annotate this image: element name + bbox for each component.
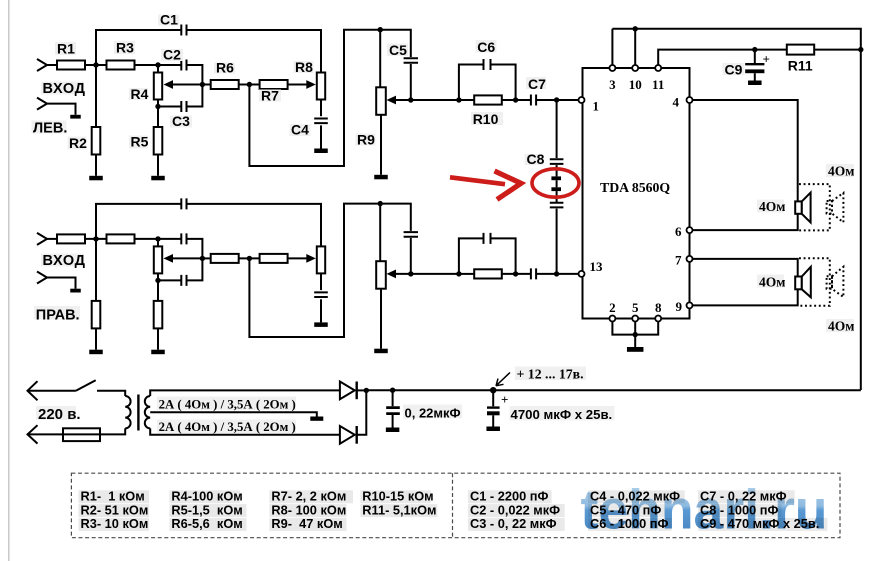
- label R1: [55, 42, 76, 55]
- switch SA1 blade: [76, 380, 96, 391]
- C6 bypass loop: [459, 238, 483, 274]
- label C6: [476, 40, 497, 53]
- svg-text:R10: R10: [473, 111, 499, 127]
- svg-text:C7: C7: [528, 76, 546, 92]
- node R9 top: [378, 201, 383, 206]
- red arrow shaft pointing at C8: [450, 177, 505, 184]
- resistor R6: [211, 80, 239, 89]
- wire C2 to right loop corner: [187, 65, 203, 85]
- input sleeve arrow: [37, 98, 47, 110]
- node C8 branch: [554, 97, 559, 102]
- pin 1 circle: [579, 97, 585, 103]
- svg-text:R5: R5: [131, 134, 149, 150]
- mains arrow top: [28, 381, 38, 400]
- svg-text:R9- 47 кОм: R9- 47 кОм: [271, 516, 342, 531]
- pin 3 circle: [609, 65, 615, 71]
- pin 8 circle: [655, 316, 661, 322]
- potentiometer R9: [376, 261, 386, 289]
- resistor R1: [57, 61, 85, 70]
- svg-text:4Ом: 4Ом: [828, 164, 854, 179]
- wire C7 to IC pin: [536, 99, 578, 101]
- wire diode cathodes join: [357, 389, 367, 391]
- label C3: [170, 116, 192, 128]
- capacitor C5: [404, 232, 418, 237]
- table dashed border: [71, 473, 840, 538]
- label 0.22 uF: [403, 405, 462, 419]
- wire +12V supply rail: [366, 389, 861, 391]
- wire C8 branch top: [556, 100, 558, 158]
- svg-text:R11: R11: [788, 58, 813, 74]
- transformer T1 secondary winding: [145, 396, 150, 428]
- label R4: [129, 88, 148, 100]
- wire mains bottom to fuse: [28, 433, 64, 435]
- label winding current top: [157, 397, 296, 411]
- svg-text:2А ( 4Ом ) / 3,5А ( 2Ом ): 2А ( 4Ом ) / 3,5А ( 2Ом ): [159, 420, 296, 434]
- capacitor C1: [181, 25, 186, 36]
- small arrow to +12V node: [496, 373, 510, 386]
- ground C4: [314, 149, 328, 154]
- pin 13 circle: [579, 271, 585, 277]
- label winding current bottom: [157, 420, 296, 434]
- capacitor C4: [314, 119, 328, 124]
- label C9: [723, 63, 745, 75]
- label R5: [129, 136, 148, 149]
- svg-text:R3: R3: [116, 40, 134, 56]
- ground center tap: [310, 417, 323, 421]
- node A input junction: [93, 62, 98, 67]
- wire sleeve to chassis stub: [47, 104, 76, 115]
- wire C8 between upper and middle: [556, 165, 558, 176]
- table value С3: [468, 518, 565, 531]
- table value С8: [698, 504, 782, 517]
- ground C9: [748, 81, 762, 86]
- label R7: [259, 90, 281, 102]
- node C6 loop left: [456, 271, 461, 276]
- resistor R7: [260, 80, 288, 89]
- wire R9 to ground: [380, 289, 382, 349]
- wire wiper to R6: [202, 257, 210, 259]
- svg-text:C4: C4: [291, 122, 309, 138]
- svg-text:6: 6: [675, 224, 682, 239]
- capacitor C2: [181, 233, 186, 244]
- svg-text:2А ( 4Ом ) / 3,5А ( 2Ом ): 2А ( 4Ом ) / 3,5А ( 2Ом ): [159, 397, 296, 411]
- pin 9 circle: [687, 302, 693, 308]
- mains arrow bottom: [28, 425, 38, 443]
- label C8: [525, 154, 544, 165]
- svg-text:C9: C9: [725, 61, 743, 77]
- label LEV.: [32, 121, 67, 134]
- wire R11 to supply rail: [814, 49, 861, 51]
- node C6 loop right: [513, 271, 518, 276]
- node feedback junction: [247, 256, 252, 261]
- wire C9 to ground: [754, 73, 756, 80]
- label PRAV.: [34, 306, 80, 320]
- diode VD2: [340, 426, 355, 444]
- transformer T1 primary winding: [125, 396, 130, 428]
- input jack arrow right channel: [37, 233, 47, 245]
- ground R5: [151, 176, 165, 181]
- svg-text:+: +: [501, 392, 508, 407]
- wire C5 to wiper rail: [410, 238, 412, 274]
- wire mains top to switch: [28, 390, 76, 392]
- wire input to R1: [47, 238, 57, 240]
- wire R6 to R7: [239, 257, 260, 259]
- pin 4 circle: [687, 97, 693, 103]
- input jack arrow left channel: [37, 59, 47, 71]
- node feedback junction: [247, 82, 252, 87]
- label R8: [294, 61, 314, 73]
- wire pin3 riser: [611, 29, 613, 65]
- svg-text:+ 12 ... 17в.: + 12 ... 17в.: [517, 367, 584, 382]
- wire to R10: [459, 99, 474, 101]
- fuse FU1: [63, 428, 100, 441]
- wire R7 to R8 wiper arrow: [288, 257, 307, 259]
- red arrow head chevron: [495, 171, 522, 200]
- table value С6: [588, 518, 672, 531]
- label BXOD left input: [41, 82, 84, 95]
- table value R1: [79, 490, 150, 503]
- wire R9 to ground: [380, 115, 382, 175]
- node filter cap 0.22: [390, 388, 395, 393]
- wire C1 to R8 top: [187, 30, 321, 73]
- R9 wiper arrow: [387, 270, 397, 279]
- op-amp IC U1 TDA8560Q body: [583, 68, 690, 319]
- ground R9: [374, 175, 388, 180]
- svg-text:С3 - 0, 22 мкФ: С3 - 0, 22 мкФ: [470, 516, 557, 531]
- svg-text:0, 22мкФ: 0, 22мкФ: [405, 405, 461, 420]
- wire sleeve to chassis stub: [47, 278, 76, 289]
- diode VD1: [340, 382, 355, 400]
- svg-text:R4: R4: [131, 86, 149, 102]
- potentiometer R8: [317, 73, 325, 100]
- svg-text:4Ом: 4Ом: [759, 275, 785, 290]
- table value С9: [698, 518, 827, 531]
- capacitor C8 upper: [550, 159, 564, 164]
- node C8 branch: [554, 271, 559, 276]
- pin 11 circle: [655, 65, 661, 71]
- wire secondary bottom: [150, 428, 340, 434]
- node R4 wiper junction: [200, 256, 205, 261]
- table value R4: [169, 490, 240, 503]
- svg-text:4Ом: 4Ом: [759, 199, 785, 214]
- resistor R1: [57, 234, 85, 243]
- capacitor C6: [484, 233, 491, 244]
- resistor R3: [107, 234, 135, 243]
- wire C8 middle: [556, 180, 558, 187]
- red highlight ellipse around C8: [532, 169, 579, 197]
- resistor R7: [260, 254, 288, 263]
- svg-text:C1: C1: [160, 12, 178, 28]
- ground R9: [374, 349, 388, 354]
- svg-text:R1: R1: [57, 41, 75, 57]
- R4 wiper arrow: [164, 80, 174, 89]
- transformer T1 core: [137, 395, 139, 431]
- table value R5: [169, 504, 246, 517]
- capacitor C6: [484, 59, 491, 70]
- resistor R11: [787, 45, 814, 55]
- feedback wire down-right-up: [249, 30, 410, 166]
- svg-text:R7- 2, 2 кОм: R7- 2, 2 кОм: [271, 489, 346, 504]
- wire pin4 to speaker LS1: [693, 100, 798, 201]
- table value R8: [269, 504, 346, 517]
- wire C4 to ground: [320, 299, 322, 322]
- table value R2: [79, 504, 150, 517]
- pin 5 circle: [632, 316, 638, 322]
- label R6: [214, 63, 235, 74]
- ground R2: [89, 350, 103, 355]
- C6 bypass loop: [459, 65, 483, 101]
- svg-text:R6-5,6 кОм: R6-5,6 кОм: [171, 516, 242, 531]
- wire C1 to R8 top: [187, 204, 321, 247]
- R4 wiper arrow: [164, 254, 174, 263]
- wire LS1 to pin6: [693, 214, 798, 230]
- wire C8 branch bottom: [556, 209, 558, 274]
- svg-text:R9: R9: [357, 131, 375, 147]
- svg-text:4: 4: [673, 95, 680, 110]
- svg-text:9: 9: [676, 299, 683, 314]
- wire R4 bottom node: [157, 100, 159, 107]
- svg-text:ПРАВ.: ПРАВ.: [36, 307, 80, 323]
- svg-text:C2: C2: [163, 47, 181, 63]
- svg-text:R2- 51 кОм: R2- 51 кОм: [81, 502, 149, 517]
- svg-text:TDA 8560Q: TDA 8560Q: [600, 180, 670, 195]
- label C2: [161, 49, 183, 61]
- table value С7: [698, 490, 795, 503]
- capacitor 4700uF electrolytic: [492, 390, 494, 406]
- label 4 Ohm dotted LS1: [826, 164, 854, 177]
- ground R2: [89, 176, 103, 181]
- C8 polarity bar lower (circled correction): [551, 187, 561, 191]
- capacitor C1: [181, 198, 186, 209]
- ground 4700uF: [486, 427, 500, 432]
- svg-text:С1 - 2200 пФ: С1 - 2200 пФ: [470, 489, 548, 504]
- label R9: [356, 134, 376, 146]
- svg-text:13: 13: [590, 259, 604, 274]
- wire C5 to wiper rail: [410, 64, 412, 100]
- chassis ground bar input: [70, 289, 81, 293]
- node R9 top: [378, 27, 383, 32]
- potentiometer R4: [157, 239, 159, 247]
- svg-text:2: 2: [609, 300, 616, 315]
- svg-text:R3- 10 кОм: R3- 10 кОм: [81, 516, 149, 531]
- svg-text:11: 11: [652, 77, 664, 92]
- wire R3 to C2: [135, 238, 182, 240]
- svg-text:tehnari.ru: tehnari.ru: [581, 478, 828, 541]
- node R4 wiper junction: [200, 82, 205, 87]
- table value R6: [169, 518, 246, 531]
- node main filter cap 4700: [490, 387, 496, 393]
- svg-text:8: 8: [655, 300, 662, 315]
- potentiometer R9: [376, 87, 386, 115]
- node R11 rail junction: [858, 47, 863, 52]
- dotted speaker LS1 alternative: [827, 201, 832, 214]
- svg-text:C5: C5: [389, 42, 407, 58]
- left page border line: [8, 0, 10, 561]
- ground IC pins 2 5 8: [627, 347, 644, 352]
- resistor R10: [474, 95, 502, 104]
- wire secondary center tap: [150, 412, 317, 416]
- node C5 bottom: [408, 271, 413, 276]
- pin 2 circle: [609, 316, 615, 322]
- svg-text:ВХОД: ВХОД: [43, 81, 86, 97]
- wire pin10 riser: [634, 29, 636, 65]
- capacitor C2: [181, 60, 186, 71]
- ground 0.22uF: [386, 428, 400, 433]
- wire top supply rail: [612, 29, 860, 390]
- label 4 Ohm dotted LS2: [826, 319, 854, 332]
- label 4700uF: [510, 406, 615, 421]
- dotted speaker LS2 alternative: [827, 276, 832, 289]
- resistor R2: [95, 65, 97, 127]
- label 4 Ohm LS2: [757, 275, 784, 288]
- svg-text:R8- 100 кОм: R8- 100 кОм: [271, 502, 346, 517]
- wire pin11 riser and rail: [658, 50, 787, 65]
- label C4: [290, 124, 311, 136]
- label 220 V: [36, 406, 76, 420]
- table value С1: [468, 490, 552, 503]
- label C7: [526, 77, 546, 89]
- potentiometer R8: [317, 246, 325, 273]
- wire R1 to R3: [85, 238, 107, 240]
- svg-text:C3: C3: [172, 113, 190, 129]
- node pin5 ground bar: [633, 332, 638, 337]
- dotted external speaker box LS2: [798, 258, 830, 306]
- wire R10 to C7: [502, 99, 531, 101]
- table dashed divider: [452, 473, 454, 538]
- pin 6 circle: [687, 227, 693, 233]
- svg-text:7: 7: [675, 253, 682, 268]
- svg-text:R7: R7: [261, 88, 279, 104]
- wire LS2 to pin9: [693, 289, 798, 305]
- svg-text:4Ом: 4Ом: [828, 319, 854, 334]
- chassis ground bar input: [70, 115, 81, 119]
- wire R6 to R7: [239, 84, 260, 86]
- label R10: [471, 112, 503, 125]
- svg-text:R6: R6: [216, 60, 234, 76]
- wire secondary top: [150, 390, 340, 396]
- wire R1 to R3: [85, 64, 107, 66]
- svg-text:1: 1: [593, 99, 600, 114]
- table value R11: [360, 504, 437, 517]
- node rectifier output: [364, 388, 369, 393]
- svg-text:4700 мкФ x 25в.: 4700 мкФ x 25в.: [511, 407, 613, 422]
- label 4 Ohm LS1: [757, 200, 784, 213]
- node R4 top junction: [155, 236, 160, 241]
- C8 polarity bar upper (circled correction): [551, 176, 561, 180]
- wire R4 bottom node: [157, 273, 159, 280]
- node C9 top: [752, 47, 757, 52]
- resistor R2: [95, 239, 97, 301]
- ground C4: [314, 322, 328, 327]
- table value R10: [360, 490, 431, 503]
- svg-text:R4-100 кОм: R4-100 кОм: [171, 489, 242, 504]
- capacitor C8 lower: [550, 203, 564, 208]
- wire R9 top: [379, 30, 381, 88]
- pin 7 circle: [687, 256, 693, 262]
- table value R7: [269, 490, 353, 503]
- node pin10 on top rail: [633, 26, 638, 31]
- capacitor C3: [158, 279, 181, 281]
- table value R9: [269, 518, 346, 531]
- wire pin7 to speaker LS2: [693, 259, 798, 277]
- wire riser to C1 rail: [96, 30, 181, 65]
- svg-text:220 в.: 220 в.: [38, 406, 81, 423]
- capacitor 0.22uF filter: [392, 390, 394, 406]
- label BXOD right input: [41, 254, 84, 267]
- svg-text:C8: C8: [527, 151, 545, 167]
- svg-text:10: 10: [629, 77, 642, 92]
- capacitor C3: [158, 106, 181, 108]
- table value С5: [588, 504, 665, 517]
- svg-text:С2 - 0,022 мкФ: С2 - 0,022 мкФ: [470, 502, 560, 517]
- wire C7 to IC pin: [536, 273, 578, 275]
- table value С4: [588, 490, 685, 503]
- wire wiper to R6: [202, 84, 210, 86]
- input sleeve arrow: [37, 272, 47, 284]
- feedback wire down-right-up: [249, 204, 410, 337]
- svg-text:R5-1,5 кОм: R5-1,5 кОм: [171, 502, 242, 517]
- node R4 top junction: [155, 62, 160, 67]
- svg-text:3: 3: [609, 77, 616, 92]
- svg-text:5: 5: [632, 300, 639, 315]
- node A input junction: [93, 236, 98, 241]
- R8 wiper arrow: [306, 80, 316, 89]
- resistor R10: [474, 269, 502, 278]
- resistor R5: [157, 107, 159, 128]
- svg-text:ЛЕВ.: ЛЕВ.: [33, 120, 67, 136]
- svg-text:R11- 5,1кОм: R11- 5,1кОм: [362, 502, 436, 517]
- potentiometer R4: [157, 65, 159, 73]
- svg-text:R2: R2: [69, 135, 87, 151]
- svg-text:R8: R8: [295, 59, 313, 75]
- ground R5: [151, 350, 165, 355]
- wire C8 below middle: [556, 191, 558, 202]
- table value R3: [79, 518, 150, 531]
- label R2: [68, 137, 87, 150]
- wire fuse to transformer primary bottom: [100, 428, 125, 434]
- wire C2 to right loop corner: [187, 239, 203, 259]
- capacitor C9 electrolytic: [754, 50, 756, 63]
- svg-text:ВХОД: ВХОД: [43, 253, 86, 269]
- capacitor C7: [531, 95, 536, 106]
- node C6 loop right: [513, 97, 518, 102]
- wire input to R1: [47, 64, 57, 66]
- wire R9 wiper to R10: [394, 273, 459, 275]
- node C5 bottom: [408, 97, 413, 102]
- wire switch to transformer primary: [97, 391, 125, 396]
- wire R8 to C4: [320, 273, 322, 290]
- dotted external speaker box LS1: [798, 184, 830, 230]
- wire C4 to ground: [320, 125, 322, 148]
- table value С2: [468, 504, 565, 517]
- wire riser to C1 rail: [96, 204, 181, 239]
- R9 wiper arrow: [387, 96, 397, 105]
- wire R7 to R8 wiper arrow: [288, 84, 307, 86]
- label C1: [158, 15, 179, 26]
- wire R3 to C2: [135, 64, 182, 66]
- svg-text:R10-15 кОм: R10-15 кОм: [362, 489, 433, 504]
- svg-text:C6: C6: [477, 39, 495, 55]
- resistor R3: [107, 61, 135, 70]
- svg-text:R1- 1 кОм: R1- 1 кОм: [81, 489, 145, 504]
- capacitor C4: [314, 292, 328, 297]
- resistor R5: [157, 280, 159, 301]
- resistor R6: [211, 254, 239, 263]
- capacitor C7: [531, 268, 536, 279]
- capacitor C5: [404, 58, 418, 63]
- node C6 loop left: [456, 97, 461, 102]
- wire pins 2 5 8 to ground: [612, 322, 658, 335]
